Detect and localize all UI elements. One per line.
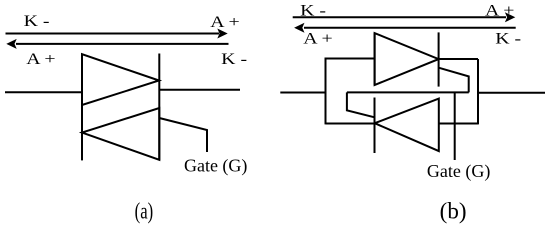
svg-text:K -: K - [495,29,521,47]
svg-text:A +: A + [485,1,514,19]
svg-text:A +: A + [26,50,55,68]
svg-text:(b): (b) [440,199,467,224]
svg-text:Gate (G): Gate (G) [184,156,247,177]
svg-text:A +: A + [210,13,239,31]
svg-text:A +: A + [303,29,332,47]
svg-text:K -: K - [221,50,247,68]
svg-text:K -: K - [24,12,50,30]
svg-text:Gate (G): Gate (G) [427,161,490,182]
svg-text:K -: K - [300,1,326,19]
svg-text:(a): (a) [135,199,154,224]
